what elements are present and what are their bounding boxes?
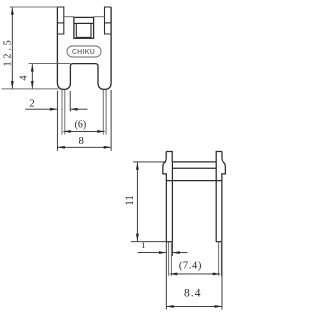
pin (side view, left) — [169, 242, 172, 276]
extension line: top edge for 12.5 — [10, 6, 58, 8]
svg-text:4: 4 — [19, 75, 30, 80]
pin (front view, right) — [103, 89, 106, 134]
side view: left arm inner edge — [171, 162, 173, 242]
fuse window box (inner) — [76, 23, 91, 37]
dimension 1 (right tail) — [172, 252, 187, 254]
dimension (6) — [63, 130, 104, 132]
pin (front view, left) — [62, 89, 65, 134]
side view: left leg bottom — [166, 241, 172, 243]
dimension 8.4 — [166, 305, 222, 307]
CHIKU logo badge — [67, 46, 101, 57]
wire: body outline with legs (front view) — [57, 7, 111, 89]
svg-text:2: 2 — [29, 98, 35, 110]
svg-text:8.4: 8.4 — [184, 288, 202, 300]
extension line: bottom edge for 12.5 / 4 — [2, 88, 59, 90]
side view: right arm inner edge — [215, 162, 217, 242]
side view: bridge bottom edge — [172, 167, 216, 169]
side view: left arm outer contour with bulge — [163, 152, 172, 242]
dimension 2 (left part with text) — [25, 108, 57, 110]
side view: right arm outer contour with bulge — [216, 152, 225, 242]
side view: cross line — [166, 180, 222, 182]
wire: body top edge (left segment) — [64, 16, 74, 18]
svg-text:(7.4): (7.4) — [179, 261, 202, 272]
tab (top-right ear) — [105, 7, 112, 34]
side view: bridge top edge — [172, 161, 216, 163]
dimension 12.5 — [11, 7, 13, 88]
dimension 4 — [31, 64, 33, 88]
extension line: left leg inner below (for 1) — [171, 242, 173, 256]
svg-text:8: 8 — [78, 135, 83, 147]
dimension 2 (right tail) — [70, 108, 87, 110]
dimension 8 — [57, 146, 111, 148]
extension line: top for 11 — [133, 161, 166, 163]
dimension 11 — [136, 162, 138, 241]
tab (top-left ear) — [57, 7, 63, 34]
extension line: right leg outer below (for 8.4) — [221, 242, 223, 310]
svg-text:12.5: 12.5 — [2, 37, 13, 66]
extension line: body left for 2/8 — [56, 91, 58, 151]
extension line: bottom for 11 — [131, 241, 166, 243]
wire: body top edge (right segment) — [94, 16, 105, 18]
dimension (7.4) — [170, 273, 220, 275]
pin (side view, right) — [219, 242, 222, 276]
svg-text:1: 1 — [141, 240, 145, 250]
extension line: left leg outer below (for 1 and 8.4) — [165, 242, 167, 310]
svg-text:CHIKU: CHIKU — [72, 49, 95, 56]
svg-text:11: 11 — [124, 195, 136, 206]
fuse window box divider — [74, 22, 94, 24]
extension line: slot top for 4 — [29, 63, 71, 65]
extension line: body right for 8 — [110, 90, 112, 151]
svg-text:(6): (6) — [75, 119, 87, 130]
extension line for 2 at slot edge — [69, 91, 71, 112]
side view: right leg bottom — [216, 241, 222, 243]
fuse window box (outer) — [74, 17, 94, 38]
dimension 1 (left part) — [138, 252, 167, 254]
